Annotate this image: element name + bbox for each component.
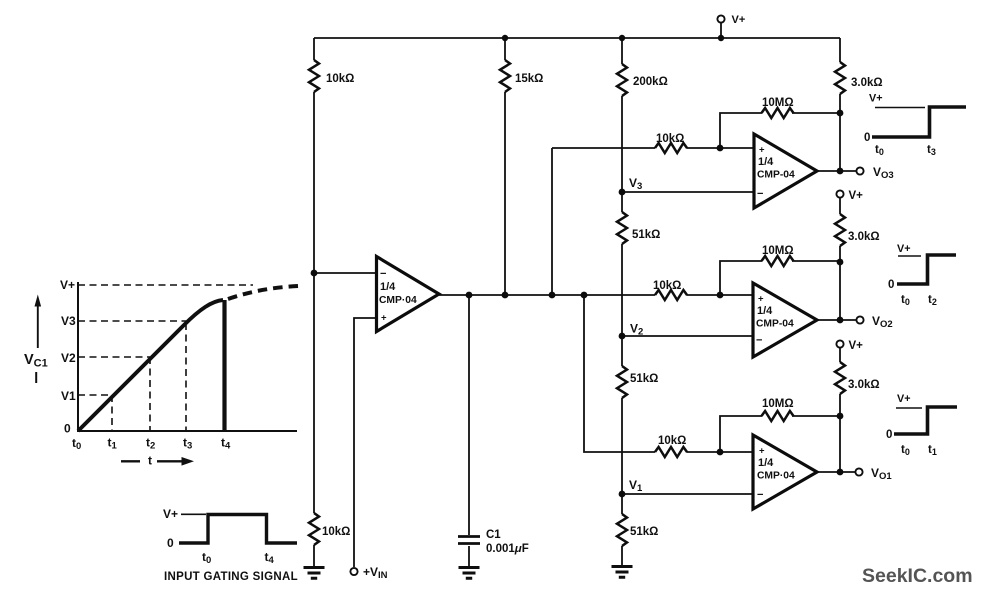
svg-text:V+: V+	[849, 340, 864, 352]
svg-text:3.0kΩ: 3.0kΩ	[848, 379, 880, 391]
svg-text:V+: V+	[897, 393, 911, 405]
svg-text:t1: t1	[108, 436, 118, 452]
svg-text:C1: C1	[486, 529, 501, 541]
svg-text:CMP-04: CMP-04	[757, 170, 795, 181]
svg-text:+VIN: +VIN	[363, 565, 388, 581]
svg-text:51kΩ: 51kΩ	[630, 526, 658, 538]
svg-text:−: −	[757, 489, 763, 501]
svg-text:VO3: VO3	[873, 165, 894, 181]
svg-text:t2: t2	[928, 294, 937, 307]
svg-text:−: −	[756, 335, 762, 347]
svg-text:CMP·04: CMP·04	[757, 471, 795, 482]
svg-text:−: −	[757, 188, 763, 200]
svg-text:3.0kΩ: 3.0kΩ	[848, 231, 880, 243]
svg-text:t3: t3	[183, 436, 192, 452]
svg-text:0: 0	[888, 279, 894, 291]
svg-text:+: +	[759, 446, 765, 457]
svg-text:t0: t0	[72, 436, 81, 452]
svg-text:1/4: 1/4	[758, 457, 774, 469]
svg-text:0: 0	[64, 422, 71, 436]
svg-text:10kΩ: 10kΩ	[653, 280, 681, 292]
svg-text:t3: t3	[927, 144, 936, 157]
svg-text:10kΩ: 10kΩ	[326, 73, 354, 85]
svg-text:CMP·04: CMP·04	[379, 295, 417, 306]
svg-text:+: +	[381, 313, 387, 324]
svg-text:V+: V+	[60, 278, 75, 292]
svg-text:3.0kΩ: 3.0kΩ	[851, 77, 883, 89]
svg-text:V1: V1	[61, 389, 76, 403]
svg-text:+: +	[758, 294, 764, 305]
svg-text:51kΩ: 51kΩ	[632, 229, 660, 241]
svg-text:1/4: 1/4	[757, 305, 773, 317]
svg-text:51kΩ: 51kΩ	[630, 373, 658, 385]
svg-text:VO2: VO2	[872, 314, 893, 330]
svg-text:t0: t0	[901, 444, 910, 457]
svg-text:15kΩ: 15kΩ	[515, 73, 543, 85]
svg-text:V2: V2	[630, 322, 643, 338]
svg-text:10MΩ: 10MΩ	[762, 398, 794, 410]
svg-text:INPUT GATING SIGNAL: INPUT GATING SIGNAL	[164, 571, 298, 583]
svg-text:10kΩ: 10kΩ	[322, 526, 350, 538]
svg-text:V+: V+	[897, 243, 911, 255]
svg-text:t0: t0	[901, 294, 910, 307]
svg-text:V3: V3	[61, 314, 76, 328]
svg-text:0: 0	[167, 536, 174, 550]
svg-text:0.001μF: 0.001μF	[486, 543, 529, 555]
svg-text:V+: V+	[732, 14, 746, 26]
svg-text:V+: V+	[163, 507, 178, 521]
svg-text:V+: V+	[869, 93, 883, 105]
svg-text:10MΩ: 10MΩ	[762, 97, 794, 109]
svg-text:t4: t4	[221, 436, 231, 452]
svg-text:10MΩ: 10MΩ	[762, 245, 794, 257]
svg-text:t2: t2	[146, 436, 155, 452]
svg-text:V+: V+	[849, 190, 864, 202]
svg-text:VC1: VC1	[24, 352, 48, 370]
svg-text:1/4: 1/4	[380, 281, 396, 293]
svg-text:CMP-04: CMP-04	[756, 319, 794, 330]
svg-text:t0: t0	[202, 550, 211, 566]
svg-text:+: +	[759, 145, 765, 156]
svg-text:1/4: 1/4	[758, 156, 774, 168]
svg-text:VO1: VO1	[871, 466, 892, 482]
svg-text:0: 0	[864, 132, 870, 144]
svg-text:SeekIC.com: SeekIC.com	[862, 565, 973, 587]
svg-text:t4: t4	[265, 550, 275, 566]
svg-text:t0: t0	[875, 144, 884, 157]
svg-text:V1: V1	[629, 478, 643, 494]
svg-text:V2: V2	[61, 351, 76, 365]
svg-text:t: t	[148, 454, 152, 468]
svg-text:0: 0	[886, 429, 892, 441]
svg-text:10kΩ: 10kΩ	[656, 133, 684, 145]
svg-text:t1: t1	[928, 444, 937, 457]
svg-text:V3: V3	[629, 176, 642, 192]
svg-text:−: −	[380, 268, 386, 280]
svg-text:10kΩ: 10kΩ	[658, 435, 686, 447]
svg-text:200kΩ: 200kΩ	[633, 76, 668, 88]
